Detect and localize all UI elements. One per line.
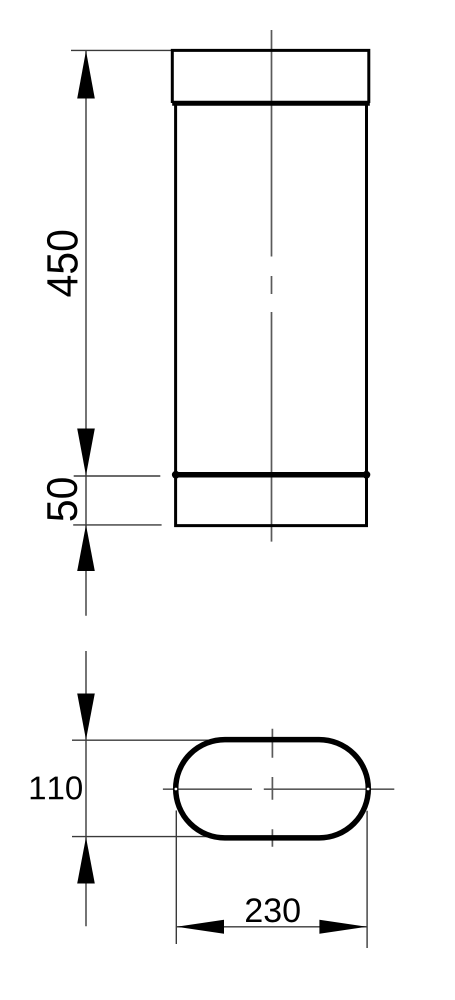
arrow left (230)	[177, 920, 224, 934]
oval duct section	[176, 740, 369, 838]
arrow down (110 top, outside)	[77, 694, 95, 740]
extension line oval left (230 dim)	[175, 811, 177, 945]
extension line at body bottom edge (50 dim)	[73, 524, 161, 526]
node left quadrant white dot	[175, 788, 178, 791]
node right quadrant white dot	[367, 788, 370, 791]
extension line oval right (230 dim)	[366, 811, 368, 948]
label 230	[246, 898, 300, 922]
arrow up (110 bottom, outside)	[77, 837, 95, 883]
dimension line 110	[85, 651, 87, 926]
label 450	[47, 231, 78, 297]
extension line at bead level (50 dim)	[74, 475, 161, 477]
arrow up (450 top)	[77, 51, 95, 99]
vertical centerline front view	[271, 30, 273, 542]
bead end bulge right	[363, 471, 371, 479]
duct body outline	[174, 101, 368, 526]
dimension line 450 and 50	[85, 51, 87, 616]
dimension line 230	[176, 926, 367, 928]
label 110	[31, 776, 82, 799]
extension line collar top (450 dim)	[71, 49, 172, 51]
collar (top rim) outline	[172, 50, 368, 103]
bead end bulge left	[172, 471, 180, 479]
bead seam thick line bottom	[174, 472, 369, 478]
horizontal centerline bottom view	[163, 788, 394, 790]
extension line oval top (110 dim)	[72, 739, 250, 741]
extension line oval bottom (110 dim)	[72, 836, 250, 838]
arrow right (230)	[319, 920, 366, 934]
vertical centerline bottom view	[271, 729, 273, 847]
arrow down (450 bottom / 50 top, outside)	[77, 429, 95, 476]
bead seam thick line top	[172, 101, 370, 106]
arrow up (50 bottom, outside)	[77, 525, 95, 571]
label 50	[47, 478, 77, 520]
